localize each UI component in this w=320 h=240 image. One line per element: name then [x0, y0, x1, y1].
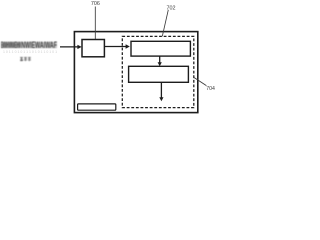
leader line 702	[162, 10, 168, 37]
wire: arrow from block B down	[160, 82, 162, 97]
wire: arrow block A to block B	[159, 56, 161, 63]
wire: arrow 706 block to dashed enclosure	[105, 46, 126, 48]
leader line 706	[94, 7, 96, 40]
svg-text:706: 706	[91, 1, 100, 7]
node: input bitstream text	[1, 40, 57, 50]
svg-text:EMMHWNMEIHM: EMMHWNMEIHM	[1, 40, 21, 50]
dashed enclosure 702	[122, 36, 194, 107]
svg-text:1 0 1 1 0 1 0 1 1 1 0 1 0 1 1: 1 0 1 1 0 1 0 1 1 1 0 1 0 1 1 0 1 0 1	[3, 50, 57, 54]
block 706	[82, 40, 104, 57]
block A inside 702	[131, 41, 190, 56]
leader line 704	[194, 78, 206, 86]
svg-text:NWIEWAIWAF: NWIEWAIWAF	[21, 40, 57, 50]
outer enclosure box	[74, 32, 197, 113]
svg-text:702: 702	[167, 5, 176, 11]
svg-text:704: 704	[206, 86, 215, 92]
wire: input arrow into enclosure	[60, 46, 78, 48]
small bottom-left box	[78, 104, 116, 110]
node label: data stream (数据流)	[20, 57, 31, 61]
block B inside 702	[129, 66, 189, 82]
